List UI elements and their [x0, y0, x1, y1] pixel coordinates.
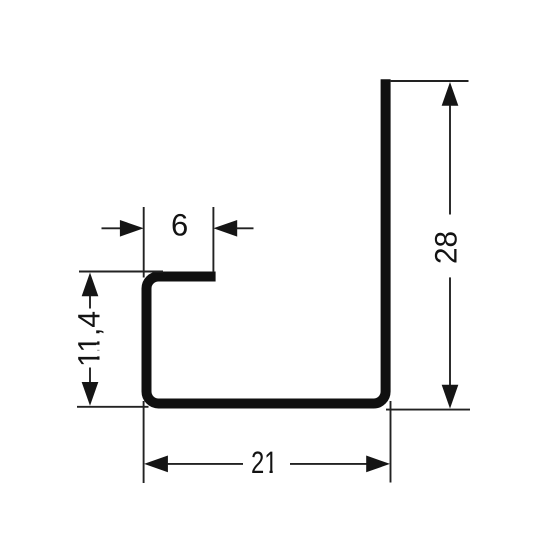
leader left (dim 6) [102, 227, 122, 229]
svg-text:6: 6 [171, 207, 188, 242]
arrow right (dim 6) [213, 220, 237, 237]
svg-text:11,4: 11,4 [71, 311, 106, 367]
profile cross-section outline [147, 79, 386, 403]
extension line right (dim 6) [212, 207, 214, 272]
arrow up (dim 11,4) [82, 273, 99, 297]
svg-text:28: 28 [429, 231, 464, 264]
extension line right (dim 21) [390, 401, 392, 483]
svg-text:21: 21 [251, 445, 278, 480]
dimension line right segment (dim 21) [290, 463, 367, 465]
extension line left (dim 6) [143, 207, 145, 278]
arrow down (dim 28) [442, 385, 459, 409]
extension line top (dim 11,4) [79, 271, 163, 273]
dimension line left segment (dim 21) [167, 463, 243, 465]
arrow left (dim 21) [144, 456, 168, 473]
dimension line stub lower (dim 11,4) [89, 368, 91, 383]
arrow down (dim 11,4) [82, 382, 99, 406]
arrow right (dim 21) [366, 456, 390, 473]
mask: trim foot serif of "1" in 21 [265, 470, 270, 474]
arrow up (dim 28) [442, 82, 459, 106]
dimension line stub upper (dim 11,4) [89, 296, 91, 309]
extension line left (dim 21) [143, 401, 145, 483]
extension line bottom (dim 11,4) [77, 406, 149, 408]
leader right (dim 6) [237, 227, 254, 229]
extension line bottom (dim 28) [386, 409, 470, 411]
extension line top (dim 28) [391, 80, 469, 82]
arrow left (dim 6) [120, 220, 144, 237]
mask: trim foot serifs of rotated "1" digits [96, 336, 100, 341]
dimension line upper segment (dim 28) [449, 105, 451, 214]
dimension line lower segment (dim 28) [449, 277, 451, 385]
